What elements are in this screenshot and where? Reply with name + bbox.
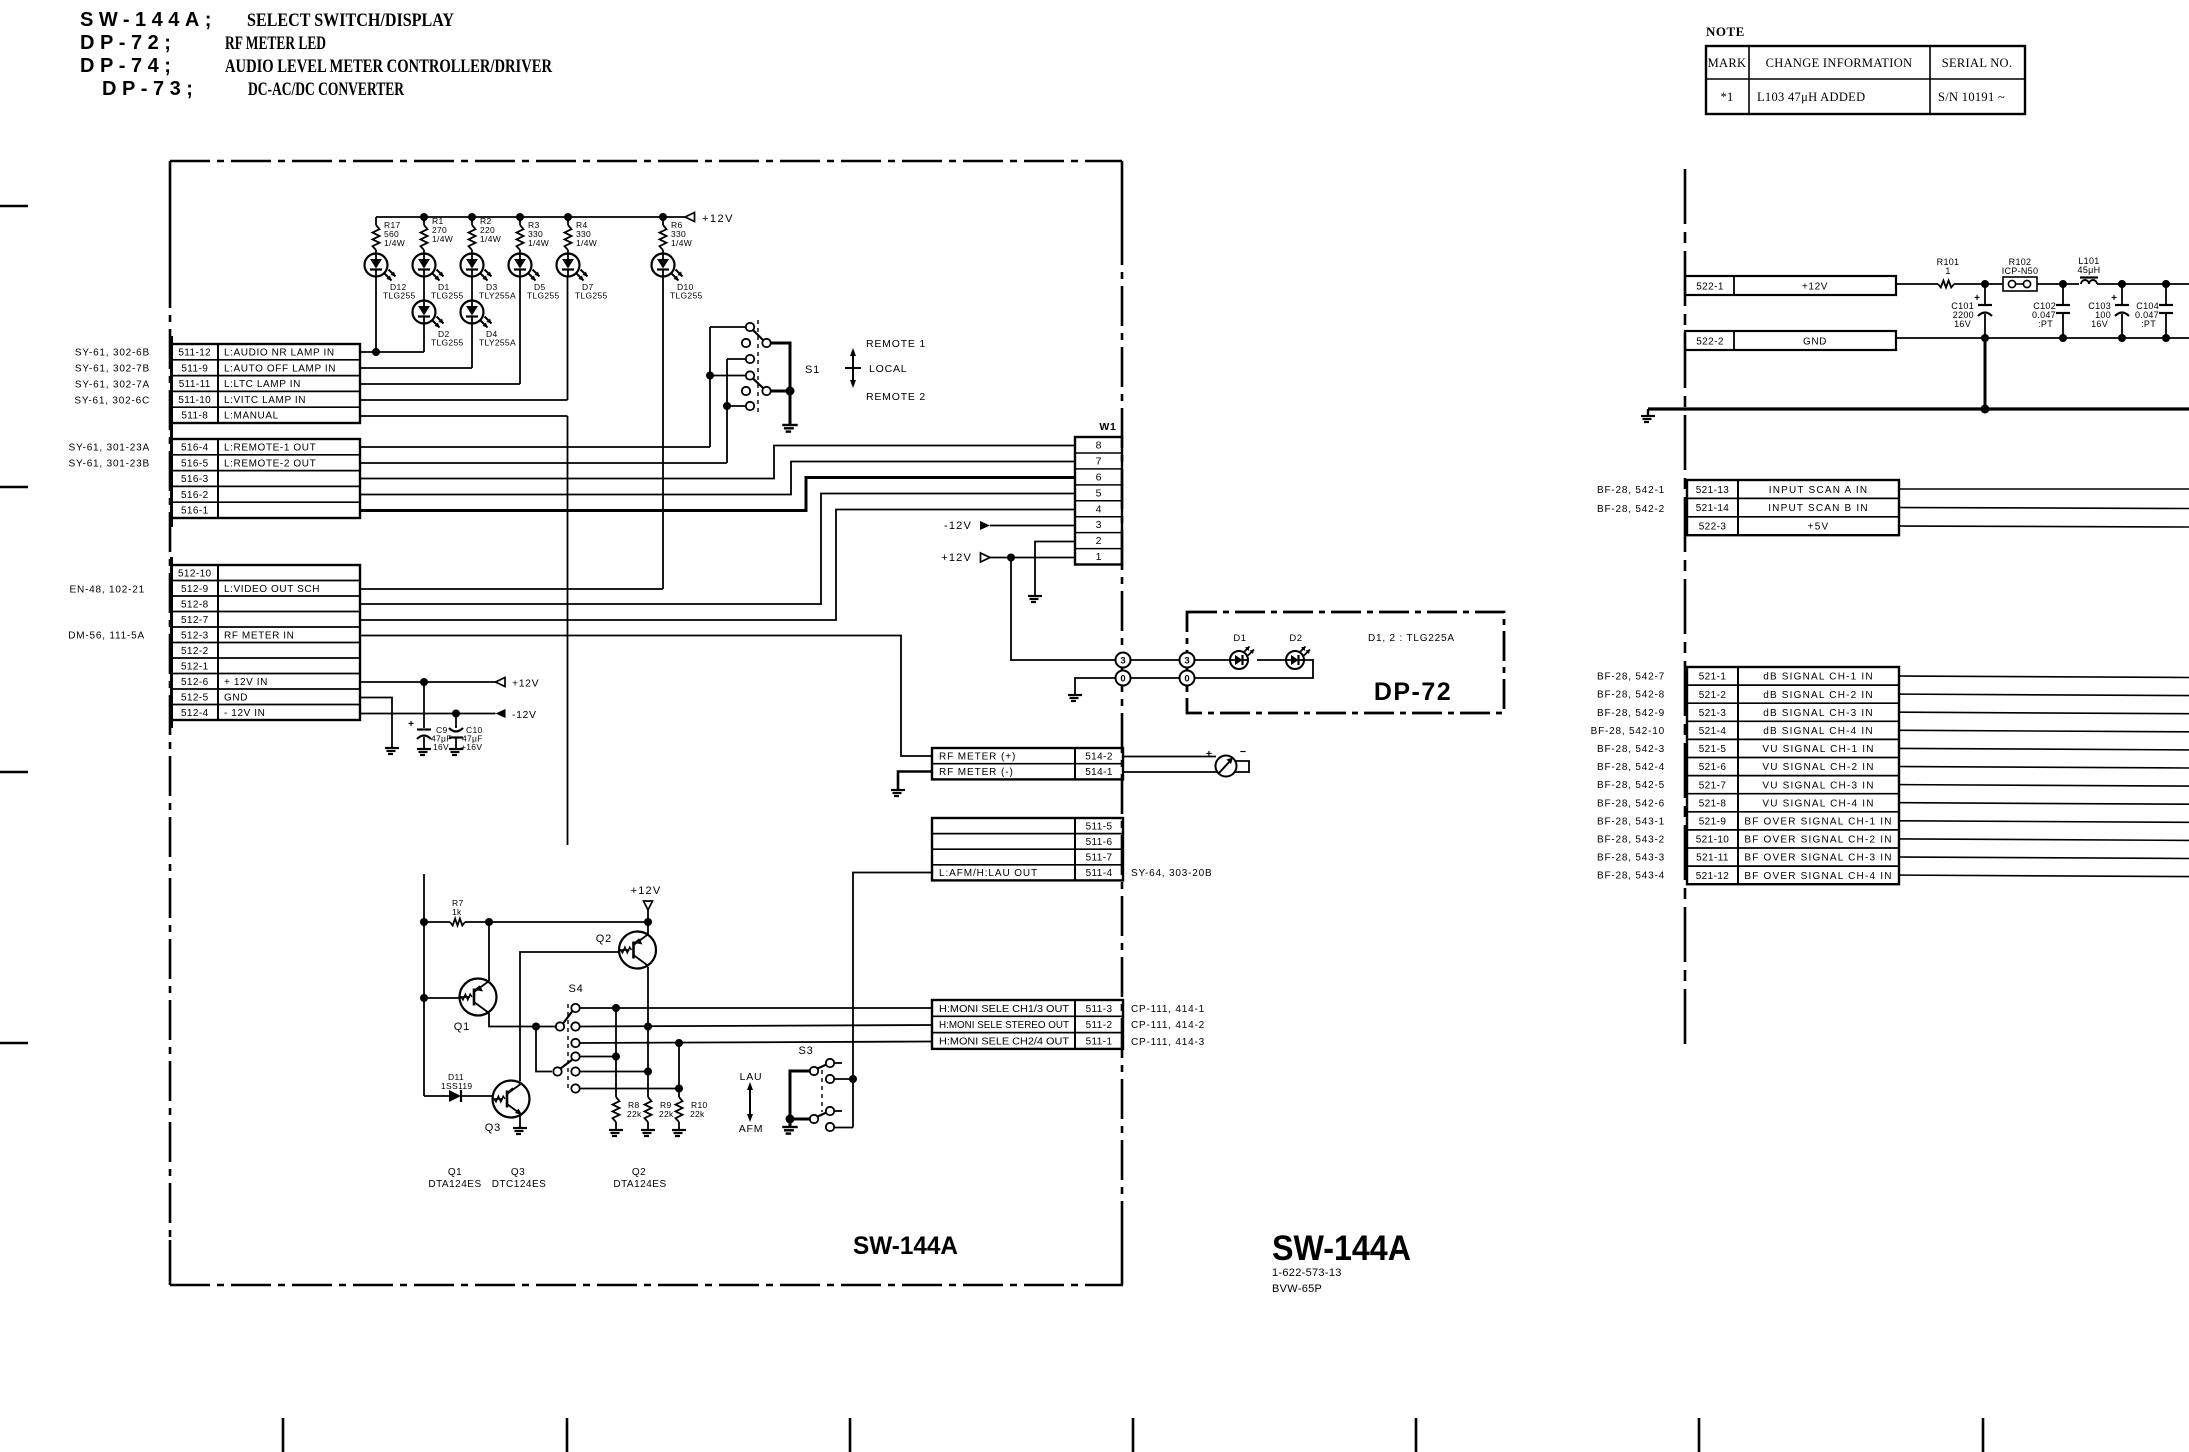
- svg-text:S1: S1: [805, 364, 820, 376]
- SW-144A board dash-dot border: [170, 161, 1123, 1285]
- wire 516-1 to W1 pin6 (bold): [360, 478, 1075, 511]
- svg-text:521-11: 521-11: [1696, 853, 1729, 864]
- circled node 3 on DP-72: [1180, 653, 1195, 668]
- svg-text:521-1: 521-1: [1699, 672, 1727, 683]
- svg-text::PT: :PT: [2141, 319, 2156, 329]
- svg-text:22k: 22k: [690, 1109, 705, 1119]
- LED D1 TLG255: [413, 254, 436, 277]
- switch S1: [746, 323, 754, 331]
- svg-text:CP-111, 414-1: CP-111, 414-1: [1131, 1004, 1205, 1015]
- svg-text:1/4W: 1/4W: [480, 234, 501, 244]
- svg-text:+: +: [408, 719, 414, 730]
- wire 516-2 to W1 pin7: [360, 462, 1075, 495]
- svg-text:Q3: Q3: [485, 1122, 501, 1134]
- svg-text:511-7: 511-7: [1086, 853, 1113, 864]
- svg-text:dB SIGNAL CH-3 IN: dB SIGNAL CH-3 IN: [1763, 708, 1874, 719]
- svg-text:INPUT SCAN B IN: INPUT SCAN B IN: [1768, 503, 1869, 514]
- wire +12V rail right: [1896, 283, 1938, 285]
- svg-text:AUDIO LEVEL METER CONTROLLER/D: AUDIO LEVEL METER CONTROLLER/DRIVER: [225, 56, 552, 77]
- svg-text::PT: :PT: [2038, 319, 2053, 329]
- svg-text:+12V: +12V: [512, 678, 539, 690]
- svg-text:VU SIGNAL CH-3 IN: VU SIGNAL CH-3 IN: [1762, 780, 1874, 791]
- svg-text:Q1: Q1: [448, 1167, 462, 1178]
- connector 514 RF METER table: [932, 748, 1123, 779]
- svg-text:S/N 10191 ~: S/N 10191 ~: [1938, 90, 2005, 104]
- svg-text:+12V: +12V: [631, 885, 662, 897]
- svg-text:SY-61, 301-23B: SY-61, 301-23B: [69, 459, 150, 470]
- wire S4 pole2 throw2 to R9 col: [580, 1071, 648, 1073]
- svg-text:L:REMOTE-2 OUT: L:REMOTE-2 OUT: [224, 458, 316, 469]
- ground symbol at bus left: [1647, 409, 1649, 415]
- svg-text:-12V: -12V: [512, 709, 537, 721]
- svg-text:GND: GND: [1803, 337, 1827, 348]
- svg-text:1k: 1k: [452, 907, 462, 917]
- fuse R102 ICP-N50: [2003, 277, 2037, 291]
- svg-text:EN-48, 102-21: EN-48, 102-21: [70, 585, 145, 596]
- wire S4 throw3 to 511-1: [580, 1042, 932, 1044]
- svg-text:L:AUDIO NR LAMP IN: L:AUDIO NR LAMP IN: [224, 348, 335, 359]
- wire Q2 base to Q3 collector: [520, 952, 619, 1081]
- svg-text:TLG255: TLG255: [431, 338, 464, 348]
- svg-text:511-5: 511-5: [1086, 821, 1113, 832]
- svg-text:L:AUTO OFF LAMP IN: L:AUTO OFF LAMP IN: [224, 363, 336, 374]
- svg-text:CP-111, 414-2: CP-111, 414-2: [1131, 1020, 1205, 1031]
- wire 514-1 to ground: [898, 772, 932, 790]
- connector 511 (lamps) table: [170, 336, 173, 431]
- svg-text:516-2: 516-2: [181, 490, 209, 501]
- svg-text:DTC124ES: DTC124ES: [492, 1179, 547, 1190]
- wire Q1 collector to S4 commons: [489, 1013, 556, 1027]
- wire +12V node down to circled 3: [1011, 558, 1116, 661]
- svg-text:511-11: 511-11: [179, 379, 211, 390]
- LED D10 TLG255: [652, 254, 675, 277]
- svg-text:516-5: 516-5: [181, 458, 209, 469]
- svg-text:521-8: 521-8: [1699, 798, 1727, 809]
- resistor R4 330 1/4W: [567, 217, 569, 225]
- svg-text:511-6: 511-6: [1086, 837, 1113, 848]
- svg-text:Q3: Q3: [511, 1167, 525, 1178]
- wire R4 to D7: [567, 250, 569, 254]
- S1 common wire to ground: [771, 343, 790, 391]
- svg-text:512-2: 512-2: [181, 646, 209, 657]
- right area dash-dot boundary: [1684, 169, 1687, 1052]
- svg-text:512-10: 512-10: [178, 568, 212, 579]
- svg-text:SW-144A: SW-144A: [853, 1232, 958, 1260]
- svg-text:D1: D1: [1233, 633, 1246, 644]
- connector 521 table (signals): [1687, 667, 1899, 884]
- svg-text:SELECT SWITCH/DISPLAY: SELECT SWITCH/DISPLAY: [247, 10, 454, 31]
- DP-72 dash-dot box: [1187, 612, 1504, 713]
- svg-text:521-4: 521-4: [1699, 726, 1727, 737]
- svg-text:522-1: 522-1: [1696, 282, 1724, 293]
- wire R2 to D3: [471, 250, 473, 254]
- connector 516 table: [170, 431, 173, 527]
- resistor R6 330 1/4W: [662, 217, 664, 225]
- svg-text:BF-28, 543-4: BF-28, 543-4: [1597, 871, 1665, 882]
- svg-text:1: 1: [1096, 551, 1102, 563]
- svg-text:LAU: LAU: [740, 1071, 763, 1083]
- connector 522-1 box: [1685, 276, 1896, 295]
- wire D12/D2 cathodes to 511-12: [375, 277, 377, 353]
- resistor R101 1: [1938, 281, 1954, 288]
- left edge fold marks: [0, 205, 28, 207]
- svg-text:BF-28, 542-8: BF-28, 542-8: [1597, 690, 1665, 701]
- svg-text:SY-61, 302-7A: SY-61, 302-7A: [75, 380, 150, 391]
- svg-text:BVW-65P: BVW-65P: [1272, 1283, 1322, 1295]
- svg-text:TLG255: TLG255: [383, 291, 416, 301]
- svg-text:521-13: 521-13: [1696, 485, 1730, 496]
- svg-text:Q2: Q2: [632, 1167, 646, 1178]
- svg-text:512-3: 512-3: [181, 630, 209, 641]
- svg-text:511-8: 511-8: [181, 411, 208, 422]
- svg-text:1-622-573-13: 1-622-573-13: [1272, 1267, 1342, 1279]
- svg-text:TLY255A: TLY255A: [479, 291, 516, 301]
- svg-text:+: +: [2111, 293, 2117, 304]
- svg-text:1/4W: 1/4W: [528, 238, 549, 248]
- svg-text:dB SIGNAL CH-4 IN: dB SIGNAL CH-4 IN: [1763, 726, 1874, 737]
- wire 512-6 +12V IN: [360, 681, 496, 683]
- svg-text:VU SIGNAL CH-2 IN: VU SIGNAL CH-2 IN: [1762, 762, 1874, 773]
- svg-text:7: 7: [1096, 455, 1102, 467]
- svg-text:1/4W: 1/4W: [576, 238, 597, 248]
- svg-text:521-9: 521-9: [1699, 816, 1727, 827]
- svg-text:BF OVER SIGNAL CH-1 IN: BF OVER SIGNAL CH-1 IN: [1744, 816, 1892, 827]
- svg-text:W1: W1: [1099, 421, 1116, 433]
- wire 512-7 to W1 pin4: [360, 510, 1075, 621]
- svg-text:2: 2: [1096, 535, 1102, 547]
- svg-text:S4: S4: [568, 983, 583, 995]
- svg-text:SERIAL NO.: SERIAL NO.: [1942, 56, 2013, 70]
- svg-text:514-1: 514-1: [1085, 767, 1113, 778]
- wire S4 throw1 to 511-3: [580, 1007, 932, 1009]
- LED D12 TLG255: [365, 254, 388, 277]
- svg-text:RF METER (-): RF METER (-): [939, 767, 1014, 778]
- svg-text:BF-28, 543-2: BF-28, 543-2: [1597, 835, 1665, 846]
- svg-text:H:MONI SELE CH2/4 OUT: H:MONI SELE CH2/4 OUT: [939, 1036, 1069, 1047]
- wire S3 throw2 to 511-4 net: [835, 1078, 854, 1080]
- wire Q1 emitter to R7 node: [488, 922, 490, 981]
- svg-text:3: 3: [1120, 655, 1125, 666]
- svg-text:0: 0: [1184, 673, 1189, 684]
- capacitor C9 47uF 16V: [423, 682, 425, 728]
- svg-text:511-3: 511-3: [1086, 1004, 1113, 1015]
- svg-text:5: 5: [1096, 487, 1102, 499]
- LED D4 TLY255A: [471, 277, 473, 301]
- wire 512-8 to W1 pin5: [360, 494, 1075, 605]
- svg-text:SY-61, 302-6B: SY-61, 302-6B: [75, 348, 150, 359]
- svg-text:512-8: 512-8: [181, 599, 209, 610]
- transistor Q2 DTA124ES: [619, 932, 656, 969]
- svg-text:GND: GND: [224, 692, 248, 703]
- wire 512-4 -12V IN: [360, 713, 496, 715]
- svg-text:BF-28, 542-10: BF-28, 542-10: [1591, 726, 1665, 737]
- svg-text:RF METER LED: RF METER LED: [225, 33, 326, 54]
- svg-text:4: 4: [1096, 503, 1102, 515]
- svg-text:3: 3: [1096, 519, 1102, 531]
- svg-text:+16V: +16V: [461, 742, 482, 752]
- svg-text:BF OVER SIGNAL CH-4 IN: BF OVER SIGNAL CH-4 IN: [1744, 871, 1892, 882]
- svg-text:16V: 16V: [2091, 319, 2108, 329]
- svg-text:521-2: 521-2: [1699, 690, 1727, 701]
- svg-text:45μH: 45μH: [2078, 265, 2101, 275]
- svg-text:+12V: +12V: [1802, 282, 1828, 293]
- svg-text:516-1: 516-1: [181, 506, 209, 517]
- wire R6 to D10: [662, 250, 664, 254]
- svg-text:16V: 16V: [1954, 319, 1971, 329]
- connector 522-2 box: [1685, 331, 1896, 350]
- wire Q2 collector down (R9 column): [647, 967, 649, 1027]
- svg-text:BF-28, 542-5: BF-28, 542-5: [1597, 780, 1665, 791]
- junction R1 rail: [420, 213, 428, 221]
- svg-text:D1, 2 : TLG225A: D1, 2 : TLG225A: [1368, 633, 1455, 644]
- svg-text:521-6: 521-6: [1699, 762, 1727, 773]
- svg-text:1/4W: 1/4W: [384, 238, 405, 248]
- svg-text:Q1: Q1: [454, 1021, 470, 1033]
- wire 511-4 to S3: [853, 873, 932, 1128]
- svg-text:3: 3: [1184, 655, 1189, 666]
- svg-text:1: 1: [1945, 266, 1950, 276]
- svg-text:L:MANUAL: L:MANUAL: [224, 411, 279, 422]
- svg-text:H:MONI SELE CH1/3 OUT: H:MONI SELE CH1/3 OUT: [939, 1004, 1069, 1015]
- svg-text:TLG255: TLG255: [575, 291, 608, 301]
- svg-text:INPUT SCAN A IN: INPUT SCAN A IN: [1769, 485, 1869, 496]
- svg-text:LOCAL: LOCAL: [869, 363, 907, 375]
- svg-text:REMOTE 1: REMOTE 1: [866, 338, 926, 350]
- +12V rail wire: [376, 216, 685, 218]
- svg-text:ICP-N50: ICP-N50: [2002, 266, 2039, 276]
- svg-text:1/4W: 1/4W: [671, 238, 692, 248]
- meter M1: [1123, 756, 1216, 758]
- svg-text:-12V: -12V: [944, 520, 972, 532]
- svg-text:BF-28, 542-1: BF-28, 542-1: [1597, 485, 1665, 496]
- wire 512-5 GND to ground: [360, 698, 392, 748]
- svg-text:1SS119: 1SS119: [441, 1081, 472, 1091]
- svg-text:522-3: 522-3: [1699, 522, 1727, 533]
- svg-text:DTA124ES: DTA124ES: [613, 1179, 666, 1190]
- svg-text:dB SIGNAL CH-1 IN: dB SIGNAL CH-1 IN: [1763, 672, 1874, 683]
- wire node3 to D1 D2 loop: [1195, 659, 1231, 661]
- wire S4 throw2 to 511-2: [580, 1025, 932, 1027]
- resistor R10 22k: [678, 1043, 680, 1097]
- svg-text:SW-144A;: SW-144A;: [80, 9, 217, 31]
- wire 516-4 to S1: [360, 446, 710, 448]
- svg-text:DP-74;: DP-74;: [80, 55, 176, 77]
- svg-text:BF-28, 542-2: BF-28, 542-2: [1597, 504, 1665, 515]
- resistor R7 1k: [450, 919, 465, 926]
- transistor Q1 DTA124ES: [460, 979, 497, 1016]
- svg-text:TLY255A: TLY255A: [479, 338, 516, 348]
- svg-text:D2: D2: [1289, 633, 1302, 644]
- wire 512-3 RF METER IN to 514-2: [360, 636, 932, 757]
- wire S3 throw4 to 511-4 net: [835, 1127, 854, 1129]
- wires 521 to right edge: [1899, 676, 2189, 678]
- capacitor C103 100 16V: [2121, 284, 2123, 305]
- svg-text:L:AFM/H:LAU OUT: L:AFM/H:LAU OUT: [939, 868, 1038, 879]
- svg-text:521-10: 521-10: [1696, 835, 1730, 846]
- svg-text:MARK: MARK: [1708, 56, 1747, 70]
- svg-text:dB SIGNAL CH-2 IN: dB SIGNAL CH-2 IN: [1763, 690, 1874, 701]
- svg-text:S3: S3: [798, 1045, 813, 1057]
- svg-text:RF METER IN: RF METER IN: [224, 630, 295, 641]
- svg-text:TLG255: TLG255: [431, 291, 464, 301]
- wire D5 cathode to 511-11: [519, 277, 521, 385]
- svg-text:NOTE: NOTE: [1706, 24, 1745, 39]
- svg-text:DP-72;: DP-72;: [80, 32, 176, 54]
- svg-text:511-12: 511-12: [178, 348, 211, 359]
- svg-text:521-7: 521-7: [1699, 780, 1727, 791]
- wire Q2 emitter from +12V: [647, 932, 649, 935]
- svg-text:512-7: 512-7: [181, 615, 209, 626]
- wire Q1 base: [424, 997, 460, 999]
- W1 pin2 wire to ground: [1035, 542, 1075, 596]
- svg-text:−: −: [1240, 746, 1246, 758]
- transistor Q3 DTC124ES: [493, 1081, 530, 1118]
- svg-text:+ 12V IN: + 12V IN: [224, 677, 268, 688]
- svg-text:BF-28, 543-1: BF-28, 543-1: [1597, 816, 1665, 827]
- svg-text:516-4: 516-4: [181, 443, 209, 454]
- svg-text:*1: *1: [1720, 90, 1733, 104]
- wire 516-5 to S1: [360, 462, 727, 464]
- resistor R3 330 1/4W: [519, 217, 521, 225]
- svg-text:+: +: [1206, 748, 1212, 760]
- svg-text:BF OVER SIGNAL CH-3 IN: BF OVER SIGNAL CH-3 IN: [1744, 853, 1892, 864]
- svg-text:BF OVER SIGNAL CH-2 IN: BF OVER SIGNAL CH-2 IN: [1744, 835, 1892, 846]
- connector 511c (MONI) table: [932, 1000, 1123, 1049]
- svg-text:TLG255: TLG255: [527, 291, 560, 301]
- svg-text:+5V: +5V: [1808, 522, 1830, 533]
- svg-text:512-5: 512-5: [181, 692, 209, 703]
- svg-text:521-3: 521-3: [1699, 708, 1727, 719]
- svg-text:DP-73;: DP-73;: [102, 78, 198, 100]
- svg-text:512-9: 512-9: [181, 584, 209, 595]
- wire D4 cathode to 511-9: [471, 324, 473, 369]
- wire R17 to D12: [375, 250, 377, 254]
- circled node 3 on border: [1116, 653, 1131, 668]
- resistor R8 22k: [615, 1008, 617, 1097]
- wire GND rail right: [1896, 337, 2189, 339]
- svg-text:- 12V IN: - 12V IN: [224, 708, 265, 719]
- svg-text:H:MONI SELE STEREO OUT: H:MONI SELE STEREO OUT: [939, 1020, 1069, 1031]
- svg-text:511-1: 511-1: [1086, 1036, 1113, 1047]
- svg-text:BF-28, 542-4: BF-28, 542-4: [1597, 762, 1665, 773]
- S3 stub wires: [835, 1062, 843, 1064]
- wire 511-8 L:MANUAL down (hanging): [360, 415, 568, 417]
- wire S4 pole2 throw3 to R10 col: [580, 1088, 679, 1090]
- svg-text:SY-61, 302-6C: SY-61, 302-6C: [74, 396, 150, 407]
- svg-text:522-2: 522-2: [1696, 337, 1724, 348]
- svg-text:0: 0: [1120, 673, 1125, 684]
- bottom fold marks: [282, 1418, 285, 1452]
- svg-text:521-12: 521-12: [1696, 871, 1730, 882]
- svg-text:L103 47μH ADDED: L103 47μH ADDED: [1757, 90, 1865, 104]
- inductor L101 45uH: [2081, 280, 2097, 284]
- svg-text:CHANGE INFORMATION: CHANGE INFORMATION: [1766, 56, 1913, 70]
- svg-text:22k: 22k: [627, 1109, 642, 1119]
- resistor R17 560 1/4W: [375, 217, 377, 225]
- svg-text:6: 6: [1096, 471, 1102, 483]
- svg-text:BF-28, 542-7: BF-28, 542-7: [1597, 672, 1665, 683]
- resistor R1 270 1/4W: [423, 217, 425, 225]
- junction R2 rail: [468, 213, 476, 221]
- connector 512 table: [170, 557, 173, 728]
- diode D11 1SS119: [424, 1095, 449, 1097]
- circled node 0 on border: [1116, 671, 1131, 686]
- capacitor C10 47uF 16V: [455, 714, 457, 729]
- svg-text:DTA124ES: DTA124ES: [428, 1179, 481, 1190]
- svg-text:511-9: 511-9: [181, 363, 208, 374]
- svg-text:512-4: 512-4: [181, 708, 209, 719]
- svg-text:511-4: 511-4: [1086, 868, 1113, 879]
- wire Q3 collector up: [519, 1082, 521, 1084]
- resistor R9 22k: [647, 1027, 649, 1098]
- capacitor C102 0.047 :PT: [2062, 284, 2064, 305]
- LED D7 TLG255: [557, 254, 580, 277]
- svg-text:511-2: 511-2: [1086, 1020, 1113, 1031]
- svg-text:512-6: 512-6: [181, 677, 209, 688]
- S3 common wire to ground: [790, 1071, 810, 1119]
- LED D3 TLY255A: [461, 254, 484, 277]
- svg-text:SW-144A: SW-144A: [1272, 1229, 1411, 1268]
- svg-text:516-3: 516-3: [181, 474, 209, 485]
- svg-text:SY-61, 301-23A: SY-61, 301-23A: [69, 443, 150, 454]
- capacitor C104 0.047 :PT: [2165, 284, 2167, 305]
- svg-text:Q2: Q2: [596, 933, 612, 945]
- svg-text:1/4W: 1/4W: [432, 234, 453, 244]
- svg-text:514-2: 514-2: [1085, 751, 1113, 762]
- svg-text:22k: 22k: [659, 1109, 674, 1119]
- svg-text:512-1: 512-1: [181, 661, 209, 672]
- svg-text:BF-28, 542-6: BF-28, 542-6: [1597, 798, 1665, 809]
- connector 521a table (scan): [1687, 480, 1899, 535]
- svg-text:L:REMOTE-1 OUT: L:REMOTE-1 OUT: [224, 443, 316, 454]
- junction R6 rail: [659, 213, 667, 221]
- resistor R2 220 1/4W: [471, 217, 473, 225]
- svg-text:TLG255: TLG255: [670, 291, 703, 301]
- wire between node pairs: [1131, 659, 1180, 661]
- svg-text:+12V: +12V: [702, 213, 734, 225]
- wire Q3 emitter to ground: [519, 1115, 521, 1127]
- LED D1 TLG225A: [1230, 651, 1248, 669]
- wire 516-3 to W1 pin8: [360, 446, 1075, 479]
- capacitor C101 2200 16V: [1984, 284, 1986, 305]
- svg-text:REMOTE 2: REMOTE 2: [866, 391, 926, 403]
- svg-text:521-5: 521-5: [1699, 744, 1727, 755]
- svg-text:L:LTC LAMP IN: L:LTC LAMP IN: [224, 379, 301, 390]
- svg-text:511-10: 511-10: [178, 395, 211, 406]
- junction R4 rail: [564, 213, 572, 221]
- svg-text:AFM: AFM: [739, 1123, 764, 1135]
- junction R3 rail: [516, 213, 524, 221]
- connector 511b (AFM) table: [932, 818, 1123, 880]
- LED D2 TLG225A: [1286, 651, 1304, 669]
- svg-text:16V: 16V: [433, 742, 449, 752]
- svg-text:BF-28, 542-9: BF-28, 542-9: [1597, 708, 1665, 719]
- ground bus wire: [1648, 407, 2189, 410]
- wire S4 pole2 throw1 to R8 col: [580, 1056, 616, 1058]
- svg-text:+: +: [1974, 293, 1980, 304]
- wire D7 cathode to 511-10: [567, 277, 569, 401]
- svg-text:+12V: +12V: [941, 552, 972, 564]
- svg-text:521-14: 521-14: [1696, 503, 1730, 514]
- LED D5 TLG255: [509, 254, 532, 277]
- svg-text:VU SIGNAL CH-4 IN: VU SIGNAL CH-4 IN: [1762, 798, 1874, 809]
- svg-text:BF-28, 543-3: BF-28, 543-3: [1597, 853, 1665, 864]
- wire circled 0 to ground: [1075, 678, 1116, 694]
- svg-text:DC-AC/DC CONVERTER: DC-AC/DC CONVERTER: [248, 79, 404, 100]
- svg-text:RF METER (+): RF METER (+): [939, 751, 1016, 762]
- +12V rail arrow: [685, 213, 695, 222]
- svg-text:BF-28, 542-3: BF-28, 542-3: [1597, 744, 1665, 755]
